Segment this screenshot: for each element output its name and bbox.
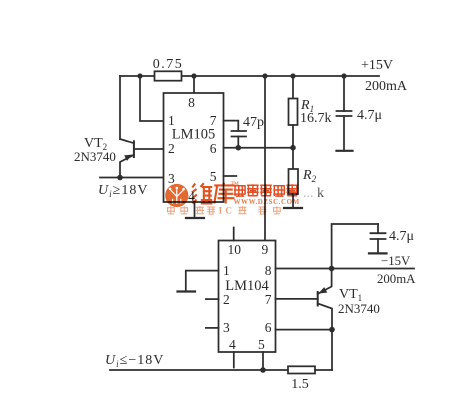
transistor Q VT2 — [120, 139, 164, 178]
wire pin5 stub — [224, 175, 237, 177]
svg-text:8: 8 — [265, 263, 272, 278]
svg-text:R2: R2 — [302, 168, 317, 184]
wire pin4 drop — [194, 202, 196, 218]
svg-text:1.5: 1.5 — [291, 377, 309, 392]
svg-text:6: 6 — [265, 320, 272, 335]
svg-text:Ui≥18V: Ui≥18V — [98, 183, 148, 199]
svg-text:5: 5 — [258, 337, 265, 352]
svg-text:LM104: LM104 — [225, 278, 269, 294]
svg-text:10: 10 — [228, 242, 242, 257]
svg-text:3: 3 — [223, 320, 230, 335]
wire bottom right segment — [315, 369, 332, 371]
ground bar R2 — [284, 207, 302, 209]
node rail-194 — [191, 73, 196, 78]
svg-text:2: 2 — [168, 141, 175, 156]
node cap47p-pin6 — [236, 145, 242, 151]
ground bar pin1 — [178, 290, 196, 292]
transistor Q VT1 — [276, 269, 333, 371]
svg-text:LM105: LM105 — [172, 127, 216, 143]
svg-text:9: 9 — [262, 242, 269, 257]
IC U2 LM104 box — [219, 241, 276, 353]
svg-text:16.7k: 16.7k — [300, 111, 332, 126]
node rail-15v — [329, 266, 335, 272]
wire pin6 row — [224, 147, 294, 149]
IC U1 LM105 box — [164, 93, 224, 202]
ground bar cap top — [337, 150, 353, 152]
svg-text:0.75: 0.75 — [153, 57, 184, 72]
svg-text:4: 4 — [229, 337, 236, 352]
wire bottom input line — [110, 369, 288, 371]
svg-text:7: 7 — [210, 113, 217, 128]
resistor R1 — [289, 76, 298, 148]
svg-text:8: 8 — [188, 95, 195, 110]
wire pin2 stub — [206, 298, 219, 300]
wire pin4 stub LM104 — [233, 352, 235, 368]
wire input line Ui>=18V — [100, 177, 164, 179]
node rail-344 — [341, 73, 346, 78]
svg-text:2: 2 — [223, 292, 230, 307]
svg-text:4.7μ: 4.7μ — [357, 108, 382, 123]
svg-text:1: 1 — [223, 263, 230, 278]
svg-text:47p: 47p — [243, 115, 264, 130]
wire rail drop to LM105 pin 8 — [193, 76, 195, 93]
capacitor C 4.7u top — [337, 76, 352, 151]
svg-text:TM: TM — [231, 181, 239, 187]
svg-text:200mA: 200mA — [365, 79, 408, 94]
node rail-140 — [137, 73, 142, 78]
svg-text:3: 3 — [168, 171, 175, 186]
capacitor C 4.7u bottom — [371, 224, 386, 253]
svg-text:6: 6 — [210, 141, 217, 156]
svg-text:k: k — [317, 186, 324, 201]
resistor 1.5 — [288, 366, 315, 373]
node pin6-collector — [329, 327, 335, 333]
svg-text:4.7μ: 4.7μ — [389, 229, 414, 244]
svg-text:WWW.DZSC.COM: WWW.DZSC.COM — [234, 198, 300, 206]
wire pin1 to ground — [186, 271, 219, 292]
svg-text:Ui≤−18V: Ui≤−18V — [105, 353, 164, 369]
svg-text:5: 5 — [210, 169, 217, 184]
wire pin10 stub — [233, 228, 235, 241]
wire -15V rail pin8 — [276, 268, 415, 270]
wire top rail left segment — [120, 75, 155, 77]
wire rail drop to LM105 pin 1 — [140, 76, 164, 121]
ground bar cap bottom — [369, 252, 387, 254]
resistor R2 — [289, 148, 299, 208]
ground bar pin4 — [186, 217, 204, 219]
wire rail drop to LM104 pin 9 — [264, 76, 266, 241]
svg-text:7: 7 — [265, 292, 272, 307]
wm bottom row — [167, 206, 281, 214]
wire pin7 to 47p — [224, 121, 239, 131]
wm mid chars — [234, 184, 298, 196]
svg-text:...: ... — [303, 186, 314, 201]
svg-text:2N3740: 2N3740 — [74, 149, 116, 164]
svg-text:IC: IC — [219, 207, 236, 217]
svg-text:−15V: −15V — [381, 254, 411, 268]
wire top rail right segment — [182, 75, 380, 77]
svg-text:2N3740: 2N3740 — [338, 301, 380, 316]
wire pin3 stub — [206, 327, 219, 329]
wm big chars — [192, 183, 235, 204]
node rail-293 — [290, 73, 295, 78]
svg-text:1: 1 — [168, 113, 175, 128]
capacitor C 47p — [232, 131, 247, 148]
wire vert to cap line — [332, 224, 378, 269]
svg-text:200mA: 200mA — [377, 272, 416, 286]
node R1-R2 — [290, 145, 296, 151]
node rail-265 — [262, 73, 267, 78]
node emitter-input — [117, 175, 123, 181]
wm logo circle — [165, 184, 188, 207]
watermark logo + text — [165, 181, 300, 217]
wire pin5 drop — [262, 352, 264, 370]
IC pin number labels — [168, 95, 272, 352]
node pin5-bottom — [260, 367, 266, 373]
wire left drop to VT2 collector — [119, 76, 121, 139]
resistor 0.75 — [155, 71, 182, 80]
wire pin6 row LM104 — [276, 329, 333, 331]
svg-text:+15V: +15V — [361, 58, 393, 73]
